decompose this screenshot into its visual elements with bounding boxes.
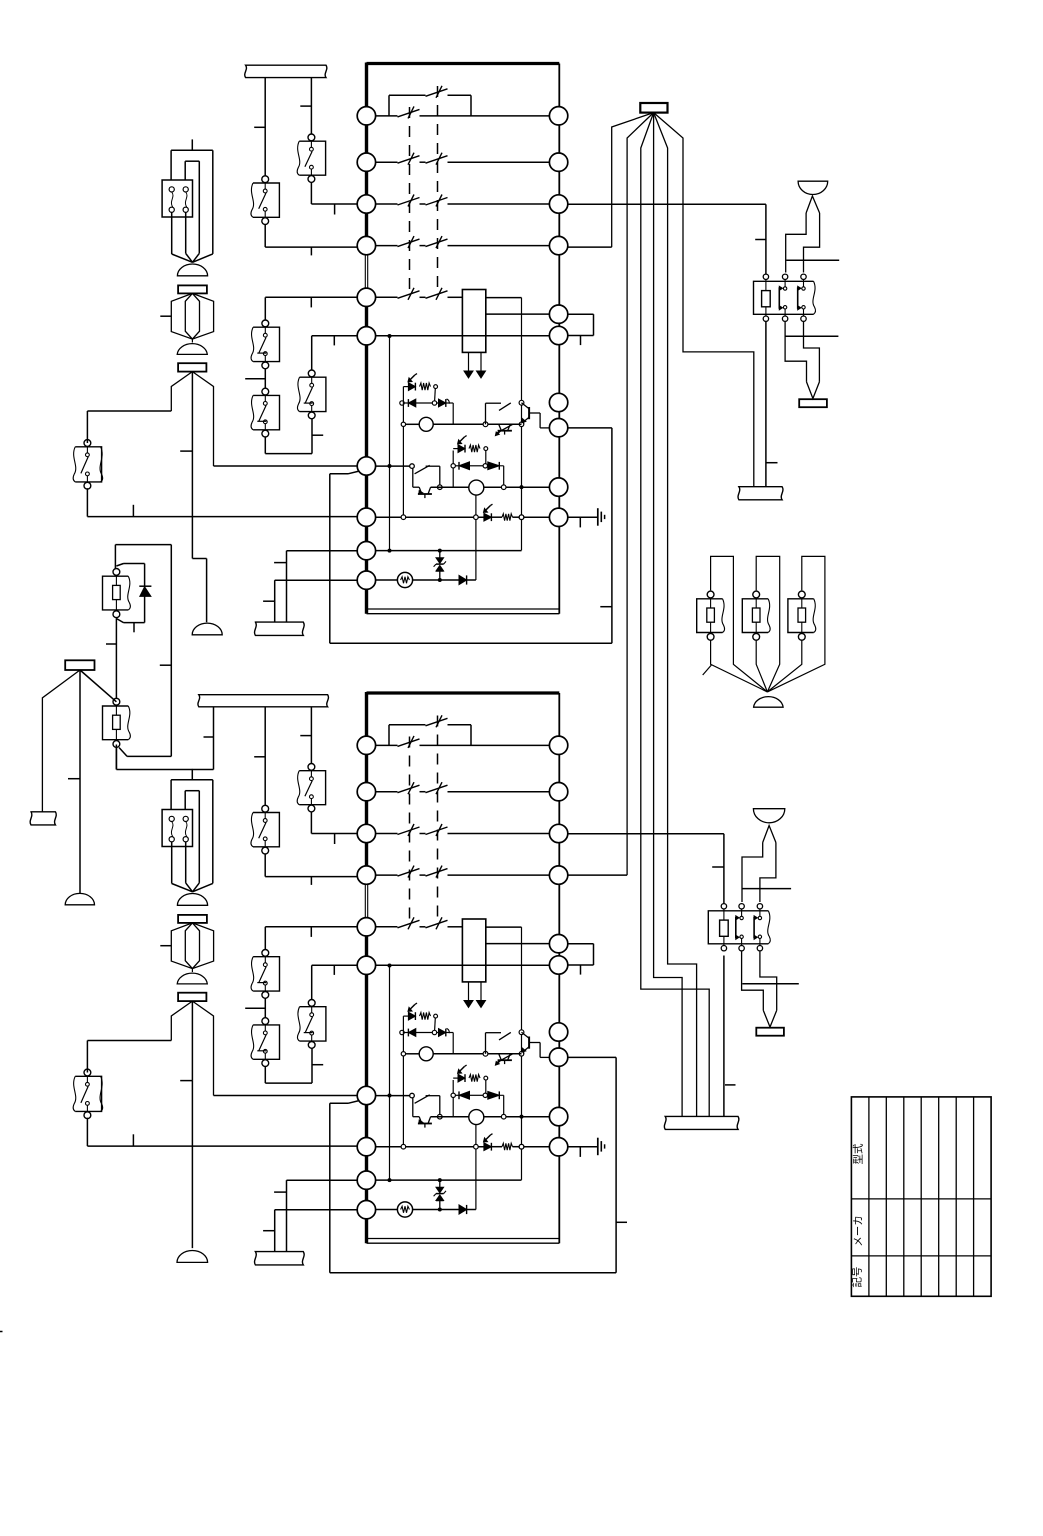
row6 left wire bbox=[312, 965, 358, 1000]
diode D1 bbox=[440, 575, 476, 584]
K1 stub a bbox=[786, 259, 839, 261]
IC1 left pin 10 bbox=[357, 571, 375, 589]
IC2 junction x521 row9 bbox=[520, 1115, 524, 1119]
JB1B fan middle wire bbox=[180, 372, 206, 623]
K2 stub b bbox=[742, 983, 799, 985]
transformer T1 bbox=[462, 290, 485, 353]
terminal bar TB2R bbox=[664, 1116, 739, 1129]
pull switch SW1F bbox=[73, 440, 103, 490]
connector CN2 bbox=[162, 810, 192, 847]
IC2 right pin 14 bbox=[549, 866, 567, 884]
T1 output wire b bbox=[486, 313, 550, 315]
diode D2 bbox=[440, 1205, 476, 1214]
IC1 bus wire x521 bbox=[521, 298, 523, 551]
IC2 left pin 3 bbox=[357, 824, 375, 842]
station stack outer loop bbox=[171, 780, 213, 892]
ground G1 bbox=[568, 508, 605, 527]
IC2 row7 wire bbox=[376, 1095, 410, 1097]
return wire pin7L-pin18R unit2 bbox=[330, 1057, 627, 1272]
transistor Q2B bbox=[495, 1054, 512, 1065]
speaker SP1A bbox=[177, 264, 207, 276]
IC1 linkage dashed line 2 bbox=[437, 86, 439, 290]
station stack inner loop bbox=[185, 161, 199, 262]
JB2B fan middle wire bbox=[180, 1001, 192, 1248]
DF3 bottom wire bbox=[767, 640, 801, 692]
IC1 row6 wire bbox=[376, 335, 550, 337]
SW1A output wire bbox=[311, 183, 357, 215]
svg-text:型式: 型式 bbox=[852, 1143, 865, 1165]
table label メーカ bbox=[853, 1215, 865, 1247]
station stack feed stub bbox=[191, 769, 193, 780]
IC1 right pin 15 bbox=[549, 305, 567, 323]
IC2 junction x521 row10 bbox=[519, 1144, 524, 1149]
IC1 left pin 4 bbox=[357, 236, 375, 254]
terminal block IC1 outline bbox=[365, 63, 559, 614]
lamp PL2A bbox=[401, 1047, 521, 1061]
IC2 left pin 9 bbox=[357, 1171, 375, 1189]
remote switch SW2B bbox=[251, 805, 279, 854]
IC1 junction x521 row10 bbox=[519, 515, 524, 520]
door line loop top bbox=[115, 545, 171, 757]
IC2 row9 wire bbox=[376, 1178, 522, 1182]
row5 left wire bbox=[265, 927, 357, 949]
PC2A supply wire bbox=[402, 1016, 404, 1144]
row3 right wire bbox=[568, 204, 766, 274]
IC2 lamp bus bbox=[475, 1125, 477, 1210]
K2 bottom wire right bbox=[760, 952, 777, 1011]
entrance speaker SPR1 bbox=[754, 697, 784, 708]
lamp barrel LB2 inner bbox=[185, 923, 199, 969]
optocoupler PC1B input branch bbox=[453, 436, 487, 464]
IC1 right pin 12 bbox=[549, 153, 567, 171]
T2 output wire b bbox=[486, 943, 550, 945]
DF2 bottom wire bbox=[756, 640, 767, 692]
SW1B output wire bbox=[265, 224, 357, 255]
T1 output wire a bbox=[486, 297, 522, 299]
IC2 junction lamp row x485 bbox=[483, 1051, 488, 1056]
door fuse box DF1 bbox=[697, 591, 725, 640]
junction bar JB2B bbox=[178, 993, 206, 1001]
row5 left wire bbox=[265, 297, 357, 319]
fan wire 6 bbox=[654, 113, 754, 487]
page edge mark bbox=[0, 1331, 3, 1333]
IC1 right pin 19 bbox=[549, 478, 567, 496]
IC1 junction lamp row x485 bbox=[483, 422, 488, 427]
IC1 left pin 7 bbox=[357, 457, 375, 475]
remote switch SW2D bbox=[251, 1018, 279, 1067]
SW1B drop wire bbox=[254, 78, 265, 177]
IC2 right pin 12 bbox=[549, 783, 567, 801]
row6 left wire bbox=[312, 336, 358, 371]
terminal bar TB1L bbox=[255, 622, 305, 635]
remote switch SW2A bbox=[297, 764, 325, 812]
IC1 row2 wire with contacts bbox=[376, 153, 550, 165]
remote switch SW1E bbox=[297, 370, 325, 419]
K1 stub b bbox=[785, 335, 838, 337]
IC1 bus wire x389 bbox=[389, 336, 391, 551]
LB1 stub bbox=[160, 315, 171, 317]
thermistor RT1 bbox=[376, 572, 442, 587]
JB2B fan left bbox=[171, 1001, 192, 1040]
IC2 right pin 15 bbox=[549, 935, 567, 953]
optocoupler PC2A back-to-back diodes bbox=[400, 1028, 453, 1053]
fuse chain wire bbox=[106, 618, 116, 698]
IC2 row4 wire with contacts bbox=[376, 866, 550, 878]
IC1 linkage dashed line 1 bbox=[409, 107, 411, 292]
ground G2 bbox=[568, 1138, 605, 1157]
IC1 row1 wire with contact S1 bbox=[376, 106, 550, 118]
IC1 left pin 8 bbox=[357, 508, 375, 526]
SW2A drop wire bbox=[300, 707, 311, 763]
IC2 junction x389 row6 bbox=[388, 964, 392, 968]
buzzer BZ2 bbox=[756, 1010, 784, 1035]
optocoupler PC1B back-to-back diodes bbox=[451, 462, 504, 487]
IC2 left pin 1 bbox=[357, 736, 375, 754]
IC2 row5 wire with contacts bbox=[376, 917, 463, 929]
parts table grid bbox=[851, 1097, 991, 1296]
IC2 row3 wire with contacts bbox=[376, 824, 550, 836]
IC1 row5 wire with contacts bbox=[376, 288, 463, 300]
IC1 right pin 18 bbox=[549, 419, 567, 437]
transistor Q1A bbox=[486, 403, 550, 428]
fan wire 5 bbox=[654, 113, 697, 1117]
T2 arrow a bbox=[464, 982, 473, 1008]
SW1D bottom link wire bbox=[265, 419, 323, 454]
BL1 wire left bbox=[786, 213, 806, 273]
IC2 junction x521 lamp row bbox=[519, 1052, 524, 1057]
svg-text:メーカ: メーカ bbox=[853, 1215, 865, 1247]
TB1L riser to row9 bbox=[274, 551, 357, 622]
speaker SPM bbox=[65, 893, 94, 904]
relay K2 bbox=[708, 904, 770, 951]
remote switch SW2E bbox=[297, 1000, 325, 1049]
terminal bar TB1T bbox=[245, 65, 327, 77]
IC2 linkage dashed line 1 bbox=[409, 737, 411, 922]
optocoupler PC2B back-to-back diodes bbox=[451, 1091, 504, 1116]
IC2 left pin 2 bbox=[357, 783, 375, 801]
IC1 left pin 2 bbox=[357, 153, 375, 171]
row4 right wire bbox=[568, 246, 612, 248]
IC2 right pin 16 bbox=[549, 956, 567, 974]
JBM fan left wire bbox=[42, 670, 80, 812]
IC1 junction x521 lamp row bbox=[519, 422, 524, 427]
speaker SP2A bbox=[177, 894, 207, 906]
remote switch SW1D bbox=[251, 388, 279, 437]
row4 right wire unit2 bbox=[568, 874, 627, 876]
IC1 junction x389 row6 bbox=[388, 334, 392, 338]
SW2C to SW2D wire bbox=[245, 998, 265, 1018]
row7 left wire bbox=[214, 1095, 358, 1097]
IC2 row1 wire with contact S1 bbox=[376, 736, 550, 748]
connector CN2 lower wires bbox=[172, 842, 193, 892]
bell BL1 bbox=[798, 181, 828, 213]
terminal bar TB1R bbox=[738, 487, 783, 500]
IC2 pins15-16 link wire bbox=[568, 944, 594, 975]
IC2 row8 wire with photodiode and resistor bbox=[376, 1134, 550, 1151]
SW2D bottom link wire bbox=[265, 1048, 323, 1083]
K1 coil return wire bbox=[766, 322, 778, 487]
fuse box FB2 bbox=[103, 698, 131, 747]
door fuse box DF2 bbox=[742, 591, 770, 640]
DF1 bottom wire bbox=[711, 640, 768, 692]
connector CN1 lower wires bbox=[172, 212, 193, 262]
optocoupler PC1A back-to-back diodes bbox=[400, 399, 453, 424]
transistor Q2C with contact bbox=[410, 1093, 442, 1127]
door speaker SP1C bbox=[192, 623, 222, 635]
IC2 left pin 7 bbox=[357, 1086, 375, 1104]
IC2 left pin 10 bbox=[357, 1201, 375, 1219]
transistor Q2A bbox=[486, 1032, 550, 1057]
JBM fan right wire bbox=[80, 670, 116, 702]
table label 記号 bbox=[851, 1267, 864, 1288]
IC1 junction x521 row7 bbox=[519, 400, 524, 405]
SW2B drop wire bbox=[254, 707, 265, 806]
terminal bar TB2L bbox=[255, 1252, 305, 1265]
fuse box FB1 bbox=[103, 569, 131, 618]
IC2 linkage dashed line 2 bbox=[437, 716, 439, 920]
K1 bottom wire right bbox=[804, 322, 820, 382]
IC1 pins15-16 link wire bbox=[568, 314, 594, 345]
K2 stub a bbox=[743, 888, 792, 890]
station stack feed stub bbox=[191, 139, 193, 150]
IC1 left pin 9 bbox=[357, 542, 375, 560]
remote switch SW1B bbox=[251, 176, 279, 225]
IC2 right pin 20 bbox=[549, 1138, 567, 1156]
IC1 right pin 11 bbox=[549, 107, 567, 125]
IC1 row3 wire with contacts bbox=[376, 195, 550, 207]
fan wire 1 bbox=[612, 113, 654, 248]
SW2B output wire bbox=[265, 854, 357, 885]
IC1 row8 wire with photodiode and resistor bbox=[376, 504, 550, 521]
terminal block IC2 outline bbox=[365, 692, 559, 1243]
lamp PL1A bbox=[401, 417, 521, 431]
fan wire 2 bbox=[627, 113, 654, 876]
IC2 right pin 17 bbox=[549, 1023, 567, 1041]
SW1F top wire bbox=[87, 411, 171, 443]
BL2 wire right bbox=[760, 843, 776, 903]
station stack inner loop bbox=[185, 791, 199, 892]
transformer T2 bbox=[462, 919, 485, 982]
IC1 left pin 6 bbox=[357, 327, 375, 345]
zener ZD2 bbox=[434, 1180, 446, 1209]
T2 output wire a bbox=[486, 926, 522, 928]
IC2 right pin 18 bbox=[549, 1048, 567, 1066]
junction bar JBM bbox=[65, 660, 94, 670]
LB2 stub bbox=[160, 945, 171, 947]
speaker SP1B bbox=[177, 339, 207, 354]
SW2F bottom wire bbox=[87, 1118, 357, 1146]
return wire pin7L-pin18R bbox=[330, 428, 612, 643]
IC1 row7 wire bbox=[376, 465, 410, 467]
junction bar JB2A bbox=[178, 915, 207, 923]
T2 arrow b bbox=[477, 982, 486, 1008]
IC1 row9 wire bbox=[376, 549, 522, 553]
IC2 right pin 19 bbox=[549, 1107, 567, 1125]
TB2T drop wire to diode chain bbox=[116, 707, 213, 770]
fan wire 4 bbox=[654, 113, 683, 1117]
bell BL2 bbox=[753, 809, 784, 843]
speaker SP2B bbox=[177, 969, 207, 984]
IC1 left pin 1 bbox=[357, 107, 375, 125]
optocoupler PC2A input branch bbox=[403, 1003, 437, 1031]
buzzer BZ1 bbox=[799, 382, 827, 407]
SW1C to SW1D wire bbox=[245, 369, 265, 389]
SW2A output wire bbox=[311, 812, 357, 844]
junction bar JB1A bbox=[178, 285, 207, 293]
terminal bar TB2T bbox=[198, 695, 329, 707]
SW1A drop wire bbox=[300, 78, 311, 134]
door fuse box DF3 bbox=[788, 591, 816, 640]
IC1 junction x521 row9 bbox=[520, 485, 524, 489]
T1 arrow b bbox=[477, 352, 486, 378]
zener ZD1 bbox=[434, 551, 446, 580]
lamp barrel LB1 outer bbox=[171, 293, 213, 339]
svg-text:記号: 記号 bbox=[851, 1267, 864, 1288]
PC1A supply wire bbox=[402, 387, 404, 515]
diode DB1 parallel bbox=[116, 564, 151, 633]
IC2 row6 wire bbox=[376, 964, 550, 966]
station stack outer loop bbox=[171, 150, 213, 262]
fan wire 3 bbox=[641, 113, 709, 1117]
K2 bottom wire left bbox=[742, 952, 764, 1011]
junction bar JB1B bbox=[178, 363, 206, 371]
optocoupler PC2B input branch bbox=[453, 1065, 487, 1093]
lamp barrel LB1 inner bbox=[185, 293, 199, 339]
IC1 row1 bypass loop with contact S2 bbox=[389, 86, 471, 116]
table label 型式 bbox=[852, 1143, 865, 1165]
IC1 left pin 3 bbox=[357, 195, 375, 213]
IC1 junction x389 row7 bbox=[388, 464, 392, 468]
optocoupler PC1A input branch bbox=[403, 374, 437, 402]
SW2F top wire bbox=[87, 1041, 171, 1073]
door speaker SP2C bbox=[177, 1251, 208, 1263]
lamp PL2B bbox=[431, 1110, 550, 1125]
IC2 bus wire x389 bbox=[389, 966, 391, 1181]
JB2B fan right bbox=[192, 1001, 213, 1095]
connector CN1 bbox=[162, 180, 192, 217]
remote switch SW1A bbox=[297, 134, 325, 182]
relay K1 bbox=[754, 274, 816, 321]
TB1L riser to row10 bbox=[263, 580, 357, 622]
IC1 right pin 20 bbox=[549, 508, 567, 526]
DF1 loop wire bbox=[711, 556, 768, 692]
SW1F bottom wire bbox=[87, 488, 357, 516]
BL1 wire right bbox=[804, 213, 820, 273]
distribution bar DB1T bbox=[640, 103, 667, 113]
IC1 right pin 13 bbox=[549, 195, 567, 213]
IC2 left pin 6 bbox=[357, 956, 375, 974]
K1 bottom wire left bbox=[785, 322, 806, 382]
IC1 left pin 5 bbox=[357, 288, 375, 306]
IC1 right pin 14 bbox=[549, 236, 567, 254]
FB2 bottom wire bbox=[116, 745, 171, 770]
JB1B fan left bbox=[171, 372, 192, 411]
IC2 junction x521 row7 bbox=[519, 1030, 524, 1035]
IC2 junction x389 row7 bbox=[388, 1094, 392, 1098]
JBM fan middle wire bbox=[68, 670, 80, 893]
DF2 loop wire bbox=[756, 556, 780, 692]
thermistor RT2 bbox=[376, 1202, 442, 1217]
remote switch SW2C bbox=[251, 950, 279, 999]
IC1 row4 wire with contacts bbox=[376, 236, 550, 248]
IC1 right pin 17 bbox=[549, 393, 567, 411]
IC2 row1 bypass loop with contact S2 bbox=[389, 715, 471, 745]
lamp PL1B bbox=[431, 480, 550, 495]
DF3 loop wire bbox=[767, 556, 825, 692]
JB1B fan right bbox=[192, 372, 213, 466]
IC2 left pin 8 bbox=[357, 1138, 375, 1156]
DF1 spur bbox=[703, 665, 712, 675]
BL2 wire left bbox=[742, 843, 763, 903]
T1 arrow a bbox=[464, 352, 473, 378]
IC2 left pin 4 bbox=[357, 866, 375, 884]
IC2 bus wire x521 bbox=[521, 927, 523, 1180]
pull switch SW2F bbox=[73, 1069, 103, 1119]
IC2 left pin 5 bbox=[357, 918, 375, 936]
row3 right wire unit2 bbox=[568, 834, 724, 904]
IC1 right pin 16 bbox=[549, 326, 567, 344]
remote switch SW1C bbox=[251, 320, 279, 369]
K2 coil return wire bbox=[724, 956, 736, 1117]
IC2 right pin 11 bbox=[549, 736, 567, 754]
row7 left wire bbox=[214, 465, 358, 467]
terminal bar TBM bbox=[30, 812, 56, 825]
TB2L riser to row10 bbox=[263, 1210, 357, 1252]
transistor Q1B bbox=[495, 424, 512, 435]
IC1 lamp bus bbox=[475, 495, 477, 580]
TB2L riser to row9 bbox=[274, 1180, 357, 1251]
IC2 right pin 13 bbox=[549, 824, 567, 842]
IC2 row2 wire with contacts bbox=[376, 782, 550, 794]
lamp barrel LB2 outer bbox=[171, 923, 213, 969]
transistor Q1C with contact bbox=[410, 464, 442, 498]
